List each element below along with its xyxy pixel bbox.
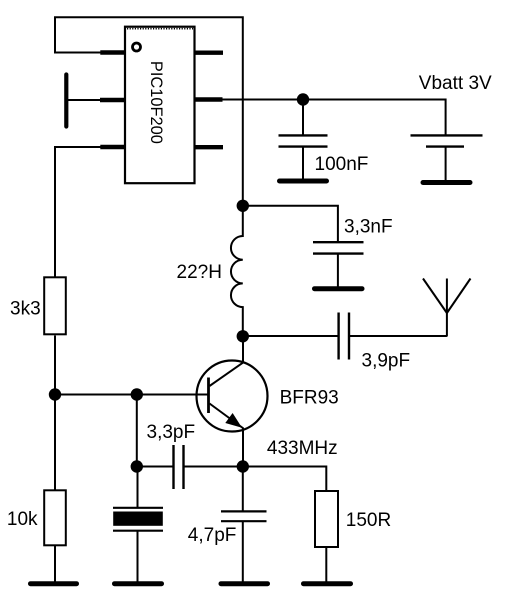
svg-text:433MHz: 433MHz: [267, 438, 338, 459]
wire junction down to crystal node: [136, 395, 138, 467]
IC pin left 1: [100, 50, 125, 54]
capacitor C4 3,3pF: [137, 445, 243, 489]
svg-text:3,3nF: 3,3nF: [344, 216, 393, 237]
wire VDD rail to battery: [223, 100, 446, 136]
capacitor C1 100nF: [279, 100, 328, 180]
resistor R1 3k3: [44, 277, 66, 334]
wire T-bar to IC middle-left pin: [67, 99, 103, 101]
capacitor C3 3,9pF: [339, 313, 447, 360]
ground under 3,3nF: [315, 286, 363, 291]
ground under 150R: [304, 581, 351, 586]
no-connect stub (T-bar) at IC left middle pin: [64, 75, 68, 127]
transistor Q1 BFR93: [197, 337, 268, 467]
ground under crystal: [115, 581, 162, 586]
junction collector node bottom: [237, 330, 249, 342]
IC pin right 1 (NC): [195, 51, 224, 55]
wire from IC bottom-left pin down to 3k3: [55, 147, 103, 277]
wire to 3,9pF: [243, 335, 338, 337]
IC U1 body PIC10F200: [125, 27, 195, 184]
wire 3k3 bottom to base junction: [54, 336, 56, 395]
svg-text:Vbatt 3V: Vbatt 3V: [419, 73, 492, 94]
ground under 100nF: [280, 179, 327, 184]
junction VDD / 100nF: [297, 93, 309, 105]
wire emitter node to 150R: [243, 467, 326, 491]
IC pin right 2 (VDD): [195, 97, 223, 101]
wire from IC pin GP3 (left top) up and over to collector node: [55, 17, 243, 206]
svg-text:10k: 10k: [7, 509, 38, 530]
IC pin left 3: [100, 145, 125, 149]
junction base / feedback cap: [131, 388, 143, 400]
wire 150R bottom to ground: [325, 548, 327, 582]
svg-text:3,3pF: 3,3pF: [147, 422, 196, 443]
svg-text:3k3: 3k3: [10, 299, 41, 320]
ground under battery: [423, 180, 470, 185]
svg-text:BFR93: BFR93: [280, 388, 339, 409]
capacitor C5 4,7pF: [221, 467, 267, 582]
ground under 10k: [31, 581, 77, 586]
ground under 4,7pF: [221, 581, 268, 586]
battery B1 Vbatt: [411, 135, 483, 180]
IC pin left 2: [100, 98, 125, 102]
antenna ANT1: [423, 279, 471, 337]
junction base / 3k3-10k: [49, 388, 61, 400]
svg-text:4,7pF: 4,7pF: [188, 525, 237, 546]
wire 3k3 junction down to 10k: [54, 395, 56, 490]
svg-text:22?H: 22?H: [177, 262, 222, 283]
crystal X1 (SAW resonator): [113, 467, 163, 582]
svg-text:150R: 150R: [346, 510, 391, 531]
wire 10k bottom to ground: [54, 546, 56, 582]
svg-text:3,9pF: 3,9pF: [362, 350, 411, 371]
IC top edge dotted decoration: [127, 28, 193, 30]
resistor R2 10k: [44, 490, 66, 545]
IC pin right 3 (NC): [195, 145, 224, 149]
junction collector node top: [237, 200, 249, 212]
wire base rail: [55, 394, 208, 396]
wire collector node to 3,3nF: [243, 206, 338, 242]
junction crystal node: [131, 460, 143, 472]
junction emitter node: [237, 460, 249, 472]
svg-text:100nF: 100nF: [315, 154, 369, 175]
inductor L1 22?H: [231, 206, 243, 337]
capacitor C2 3,3nF: [313, 242, 364, 287]
resistor R3 150R: [315, 491, 338, 547]
IC pin 1 marker circle: [133, 43, 141, 51]
svg-text:PIC10F200: PIC10F200: [147, 61, 165, 144]
